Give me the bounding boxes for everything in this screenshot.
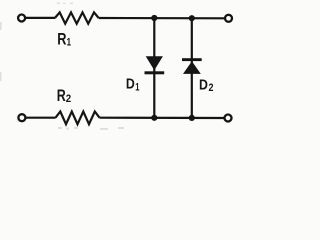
diode D2 (cathode up) xyxy=(182,58,202,74)
resistor R1 xyxy=(55,12,99,23)
wire branch D1 vertical xyxy=(153,18,155,118)
svg-text:1: 1 xyxy=(135,81,139,93)
resistor R2 xyxy=(56,112,100,125)
diode D1 (cathode down) xyxy=(145,56,165,74)
terminal bottom-right xyxy=(225,115,232,122)
node junction bottom D2 xyxy=(189,115,195,121)
node junction bottom D1 xyxy=(151,115,157,121)
svg-text:2: 2 xyxy=(66,93,71,105)
scan artifacts (faint) xyxy=(0,3,124,130)
svg-text:R: R xyxy=(57,31,66,49)
terminal bottom-left xyxy=(18,114,25,121)
wire bottom-right xyxy=(100,117,225,120)
svg-text:2: 2 xyxy=(209,82,214,94)
terminal top-right xyxy=(225,15,232,22)
wire bottom-left xyxy=(26,117,55,119)
wire branch D2 vertical xyxy=(191,18,193,118)
svg-text:R: R xyxy=(57,87,66,105)
terminal top-left xyxy=(18,15,25,22)
node junction top D1 xyxy=(151,15,157,21)
background paper xyxy=(0,0,240,139)
svg-text:D: D xyxy=(126,76,135,93)
svg-text:1: 1 xyxy=(67,37,71,49)
svg-text:D: D xyxy=(199,77,208,94)
node junction top D2 xyxy=(189,15,195,21)
wire top-right xyxy=(99,17,225,19)
wire top-left xyxy=(26,17,55,19)
